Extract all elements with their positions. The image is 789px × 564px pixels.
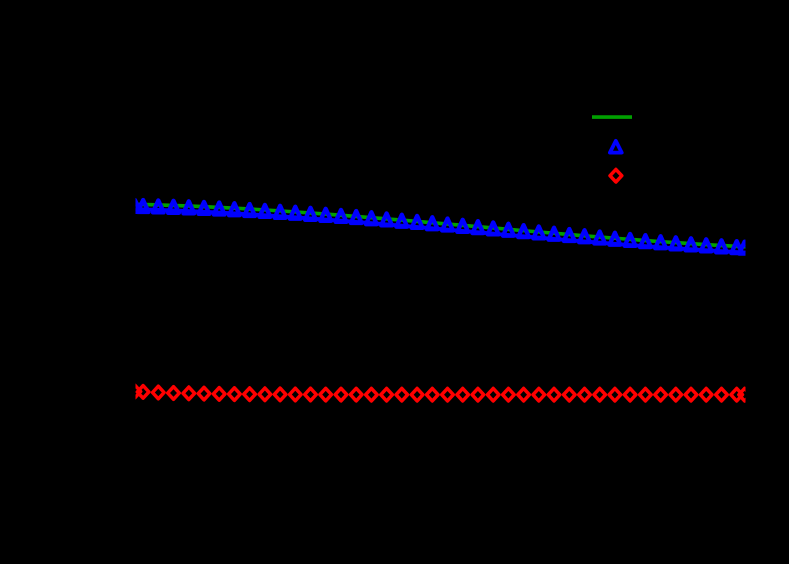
green line series (136, 204, 746, 246)
legend green line sample (592, 115, 632, 119)
legend blue triangle sample (610, 141, 622, 153)
blue triangle markers (130, 200, 751, 254)
legend red diamond sample (610, 169, 622, 182)
axes frame (136, 76, 746, 506)
blue line series (136, 209, 746, 252)
red diamond markers (129, 385, 750, 401)
